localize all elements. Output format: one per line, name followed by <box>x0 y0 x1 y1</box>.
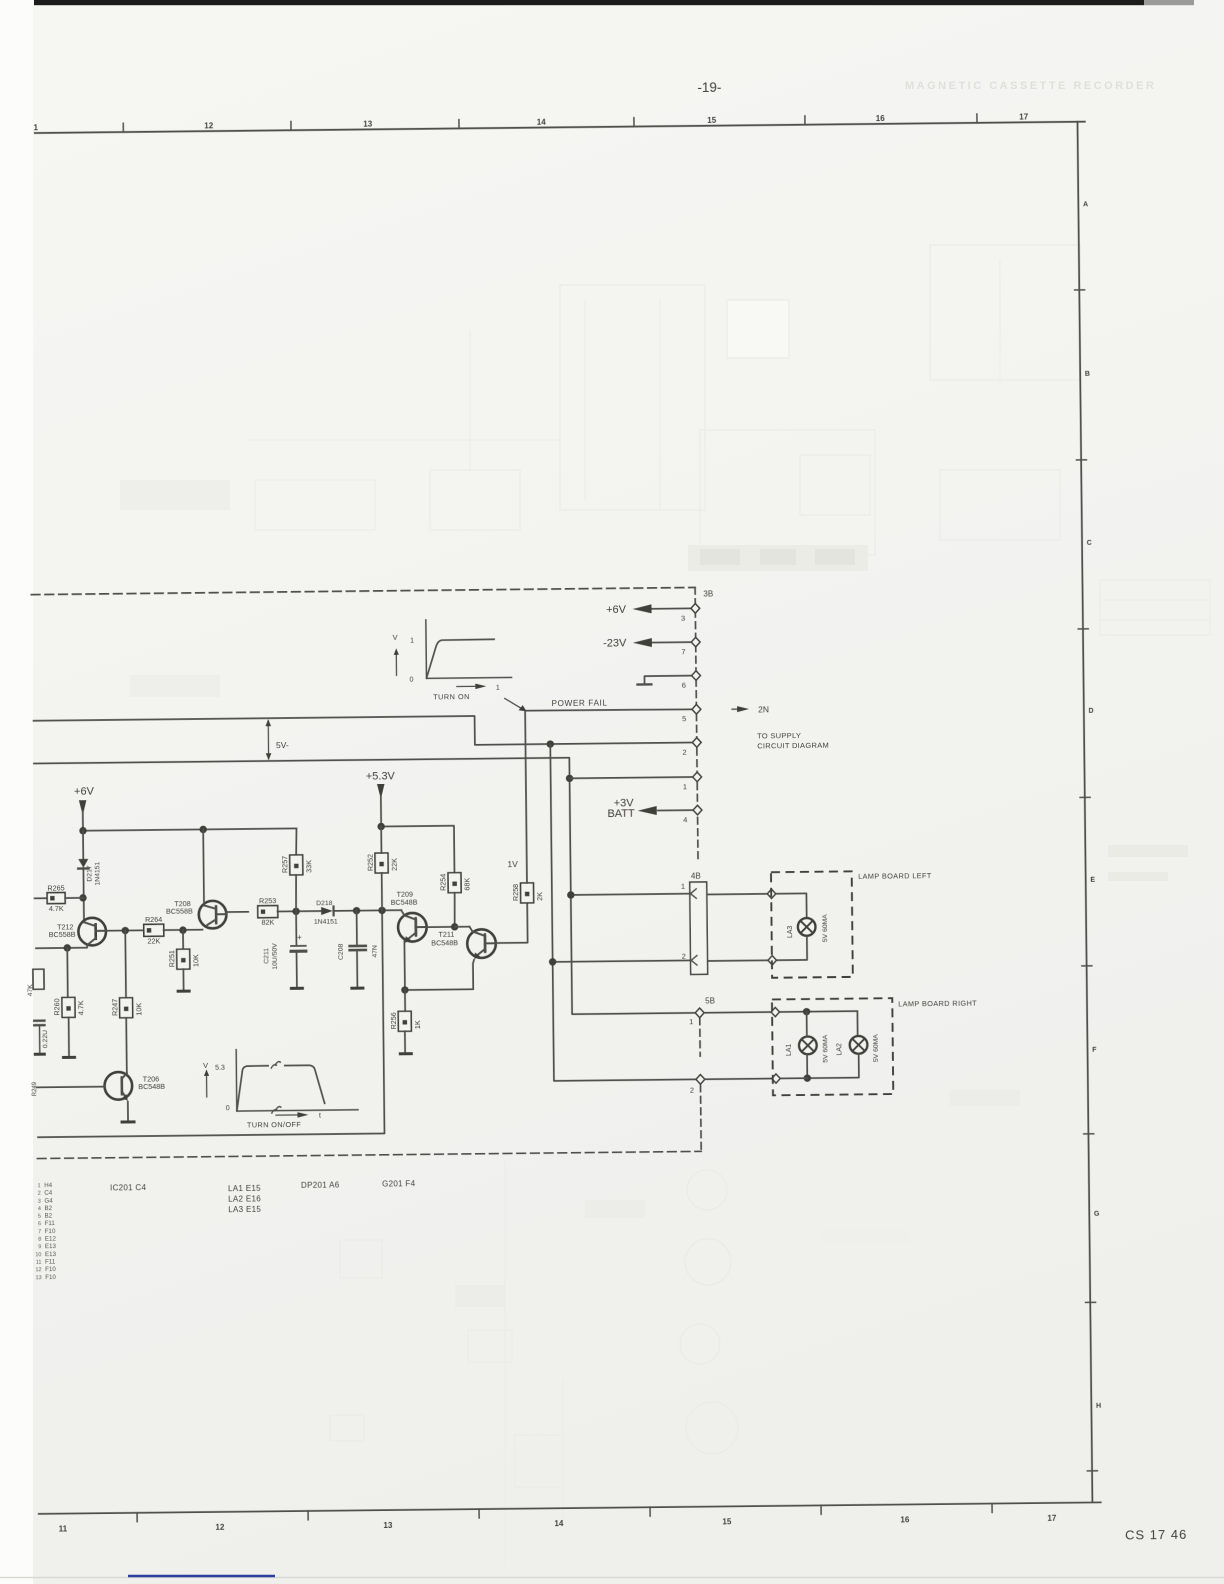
svg-text:E: E <box>1090 877 1095 884</box>
svg-text:LA1 E15: LA1 E15 <box>228 1184 261 1193</box>
wire +6V rail <box>83 828 296 830</box>
location note LA3 E15 <box>228 1205 261 1214</box>
svg-text:4.7K: 4.7K <box>49 904 64 913</box>
svg-text:7: 7 <box>38 1229 41 1235</box>
svg-text:LAMP BOARD RIGHT: LAMP BOARD RIGHT <box>898 999 977 1009</box>
svg-text:C208: C208 <box>338 943 345 960</box>
svg-text:2N: 2N <box>758 704 769 714</box>
label T212 BC558B <box>49 922 76 939</box>
wire R265 stub from page edge <box>35 897 48 899</box>
node R257/C211 junction <box>292 908 299 915</box>
svg-text:F10: F10 <box>45 1266 56 1273</box>
node emitter-rail / R260 <box>64 944 71 951</box>
svg-text:R265: R265 <box>47 883 64 892</box>
svg-text:9: 9 <box>38 1244 41 1250</box>
ground below T206 <box>121 1120 136 1123</box>
svg-text:BC558B: BC558B <box>49 930 76 939</box>
wire: 5V- upper rail to connector 3B pin 2 <box>33 714 693 750</box>
svg-text:B2: B2 <box>44 1205 52 1212</box>
ground below R251 <box>177 990 191 993</box>
svg-text:CS 17 46: CS 17 46 <box>1125 1527 1187 1543</box>
svg-text:13: 13 <box>363 120 373 129</box>
wire R265 to base node <box>65 897 83 899</box>
wire T208 collector to +6V rail <box>202 829 205 902</box>
svg-text:POWER FAIL: POWER FAIL <box>551 699 607 709</box>
wire down to R251 <box>182 930 184 949</box>
transistor T211 BC548B <box>467 926 496 959</box>
graph turn-on/off: value 5.3 and 0 <box>215 1065 230 1112</box>
svg-text:LAMP BOARD LEFT: LAMP BOARD LEFT <box>858 871 932 881</box>
svg-text:10: 10 <box>35 1252 41 1258</box>
svg-text:2: 2 <box>690 1085 694 1094</box>
svg-text:4: 4 <box>683 815 687 824</box>
svg-text:15: 15 <box>722 1517 732 1526</box>
connector 4B housing <box>690 882 708 975</box>
dashed box LAMP BOARD RIGHT <box>772 998 893 1095</box>
graph turn-on/off: V label and arrow <box>203 1061 209 1097</box>
svg-text:14: 14 <box>554 1519 564 1528</box>
wire R252 column <box>380 826 383 910</box>
lamp board left boundary diamond pin1 <box>767 889 775 898</box>
svg-text:MAGNETIC CASSETTE RECORDER: MAGNETIC CASSETTE RECORDER <box>905 80 1156 92</box>
svg-text:BC548B: BC548B <box>391 898 418 907</box>
svg-text:R251: R251 <box>167 950 176 967</box>
svg-text:2K: 2K <box>535 892 544 901</box>
connector 3B dashed spine <box>695 587 698 861</box>
graph turn-on: time axis arrow and t <box>457 683 500 692</box>
svg-text:1: 1 <box>683 782 687 791</box>
location note LA2 E16 <box>228 1194 261 1203</box>
diode D217 1N4151 <box>78 859 101 886</box>
svg-text:G201 F4: G201 F4 <box>382 1179 416 1188</box>
transistor T209 BC548B <box>398 910 427 943</box>
svg-text:6: 6 <box>38 1221 41 1227</box>
dashed box LAMP BOARD LEFT <box>771 871 853 977</box>
wire D218 to T209 base node <box>334 909 402 912</box>
svg-text:E13: E13 <box>45 1251 57 1258</box>
svg-text:R260: R260 <box>52 998 61 1015</box>
wire T206 base from page edge <box>37 1086 105 1089</box>
resistor R265 4.7K <box>47 883 65 913</box>
svg-text:5: 5 <box>682 714 686 723</box>
svg-text:BC548B: BC548B <box>431 938 458 947</box>
connector 3B pin 7 (-23V) <box>633 637 700 657</box>
resistor R260 4.7K <box>52 997 85 1017</box>
wire R260 to ground <box>68 1017 70 1057</box>
svg-text:BC558B: BC558B <box>166 907 193 916</box>
graph turn-on/off: time axis arrow and t <box>276 1112 321 1120</box>
svg-text:R256: R256 <box>389 1012 398 1029</box>
svg-text:1: 1 <box>689 1017 693 1026</box>
svg-text:-23V: -23V <box>603 637 627 649</box>
graph turn-on/off: caption TURN ON/OFF <box>247 1120 301 1130</box>
svg-text:11: 11 <box>36 1260 42 1266</box>
svg-text:+: + <box>297 933 302 942</box>
wire T211 emitter to node <box>405 959 475 990</box>
svg-text:R247: R247 <box>110 999 119 1016</box>
graph turn-on: V axis label and arrow <box>392 633 399 676</box>
location note IC201 C4 <box>110 1183 147 1192</box>
wire T212 emitter to left rail <box>35 945 87 948</box>
svg-text:10U/50V: 10U/50V <box>272 943 279 970</box>
svg-text:F11: F11 <box>45 1259 56 1266</box>
svg-text:7: 7 <box>681 647 685 656</box>
diode D218 1N4151 <box>314 900 338 926</box>
svg-text:22K: 22K <box>390 858 399 871</box>
resistor R254 68K <box>438 873 471 893</box>
bottom ruler ticks <box>137 1504 992 1522</box>
svg-text:D: D <box>1089 708 1094 715</box>
label LAMP BOARD RIGHT <box>898 999 977 1009</box>
svg-text:1: 1 <box>38 1183 41 1189</box>
grid reference list rotated at left margin <box>35 1182 57 1281</box>
connector 3B pin 1 diamond <box>683 772 702 791</box>
svg-text:1N4151: 1N4151 <box>94 862 101 886</box>
svg-text:IC201 C4: IC201 C4 <box>110 1183 147 1192</box>
svg-text:1K: 1K <box>413 1020 422 1029</box>
svg-text:47N: 47N <box>372 945 379 958</box>
label T211 BC548B <box>431 930 458 948</box>
svg-text:1N4151: 1N4151 <box>314 918 338 925</box>
wire 5B pin2 wire into lamp board <box>705 1078 807 1079</box>
location note LA1 E15 <box>228 1184 261 1193</box>
svg-text:DP201 A6: DP201 A6 <box>301 1180 340 1189</box>
graph turn-on: axis values 1 and 0 <box>409 638 414 684</box>
svg-text:68K: 68K <box>463 878 472 891</box>
resistor R257 33K <box>280 855 313 875</box>
top ruler ticks <box>123 114 977 132</box>
wire R257 column from rail <box>295 828 298 854</box>
lamp LA1 5V 60MA <box>785 1034 829 1063</box>
svg-text:C4: C4 <box>44 1190 53 1197</box>
ground below C211 <box>290 987 304 990</box>
wire column A to 4B pin 2 <box>553 960 691 961</box>
location note G201 F4 <box>382 1179 416 1188</box>
sheet code CS 17 46 <box>1125 1527 1187 1543</box>
svg-text:G4: G4 <box>44 1197 53 1204</box>
label 1V test point <box>507 859 518 869</box>
node: column B junction to 3B pin1 wire <box>566 775 573 782</box>
svg-text:0: 0 <box>226 1105 230 1112</box>
wire LA2 bottom to LA1 bottom <box>807 1054 859 1079</box>
svg-text:D217: D217 <box>86 865 93 882</box>
connector 3B label <box>703 589 713 598</box>
resistor R264 22K <box>144 915 164 946</box>
ground below C208 <box>350 987 364 990</box>
connector 4B pin 1 chevron <box>681 882 697 899</box>
node +5.3V rail / R252 <box>377 823 384 830</box>
svg-text:5V 60MA: 5V 60MA <box>822 914 829 942</box>
svg-text:0.22U: 0.22U <box>42 1030 49 1048</box>
svg-text:-19-: -19- <box>697 80 721 95</box>
wire node down to C211 <box>295 911 297 945</box>
svg-text:C211: C211 <box>263 948 270 964</box>
svg-text:V: V <box>203 1061 208 1070</box>
svg-text:5V 60MA: 5V 60MA <box>822 1034 829 1062</box>
svg-text:LA2: LA2 <box>836 1043 843 1056</box>
svg-text:1: 1 <box>34 123 39 132</box>
wire T211 collector to R258 column <box>495 903 528 943</box>
svg-text:1V: 1V <box>507 859 518 869</box>
ground at page edge <box>34 1053 46 1056</box>
wire R257 to node <box>295 875 298 911</box>
dashed boundary box of supply circuit (top edge) <box>31 587 695 594</box>
graph turn-on: response curve <box>426 639 495 678</box>
svg-text:A: A <box>1083 201 1088 208</box>
node LA1 bottom <box>804 1074 811 1081</box>
svg-text:+5.3V: +5.3V <box>366 770 396 782</box>
right border row letters A-H <box>1083 201 1102 1409</box>
node C208 tap <box>353 907 360 914</box>
dashed boundary box (bottom edge) <box>37 1151 701 1158</box>
node LA1 top <box>803 1008 810 1015</box>
wire C208 column <box>356 911 358 945</box>
wire T209 emitter down <box>403 941 406 990</box>
wire C211 to ground <box>296 951 298 988</box>
label T206 BC548B <box>138 1075 165 1092</box>
svg-text:t: t <box>319 1113 321 1120</box>
power arrow +5.3V <box>366 770 396 826</box>
wire T208 emitter to R253 <box>226 911 248 913</box>
lamp LA2 5V 60MA <box>836 1034 880 1063</box>
connector 4B label <box>691 872 701 881</box>
svg-text:3: 3 <box>681 613 685 622</box>
svg-text:F10: F10 <box>45 1228 56 1235</box>
resistor R251 10K <box>167 949 200 969</box>
connector 3B pin 4 (+3V BATT) <box>638 805 702 824</box>
svg-text:12: 12 <box>35 1267 41 1273</box>
label T209 BC548B <box>391 890 418 907</box>
wire diode to base node <box>82 868 85 922</box>
top ruler column numbers <box>34 112 1029 132</box>
note TO SUPPLY CIRCUIT DIAGRAM <box>757 731 829 750</box>
svg-text:B2: B2 <box>45 1213 53 1220</box>
wire: column A down to 5B pin 2 <box>550 743 696 1081</box>
wire C208 to ground <box>356 950 358 988</box>
node R247 tap <box>122 927 129 934</box>
wire column B to 4B pin 1 <box>571 894 690 895</box>
svg-text:1: 1 <box>496 685 500 692</box>
node column A / 4B pin2 <box>549 958 556 965</box>
connector 4B pin 2 chevron <box>682 952 698 966</box>
svg-text:6: 6 <box>682 681 686 690</box>
wire down to R260 <box>66 948 69 998</box>
svg-text:22K: 22K <box>147 936 160 945</box>
svg-text:R258: R258 <box>511 884 520 901</box>
net label +6V at pin 3 <box>606 604 627 616</box>
svg-text:13: 13 <box>36 1275 42 1281</box>
wire +5.3V rail to R254 column <box>381 826 454 875</box>
svg-text:LA2 E16: LA2 E16 <box>228 1194 261 1203</box>
lamp board right boundary diamond pin2 <box>772 1074 780 1083</box>
svg-text:TO SUPPLY: TO SUPPLY <box>757 731 801 740</box>
svg-text:11: 11 <box>59 1524 68 1533</box>
label T208 BC558B <box>166 899 193 916</box>
node T209/T211/R254 <box>451 923 458 930</box>
node D217/R265 junction <box>79 894 86 901</box>
graph turn-on/off: response curve with breaks <box>236 1061 325 1114</box>
svg-text:4.7K: 4.7K <box>76 1000 85 1015</box>
wire LA3 to 4B pin2 <box>707 936 807 961</box>
svg-text:1: 1 <box>410 638 414 645</box>
svg-text:16: 16 <box>876 114 886 123</box>
svg-text:3B: 3B <box>703 589 713 598</box>
wire to LA2 top <box>856 1011 858 1036</box>
node column B / 4B pin1 <box>567 891 574 898</box>
label 5V- with span arrows <box>265 719 289 760</box>
power arrow +6V <box>74 786 95 831</box>
svg-text:5V 60MA: 5V 60MA <box>873 1034 880 1062</box>
wire R254 to T209 collector node <box>453 893 456 927</box>
wire R247 column <box>124 931 127 999</box>
svg-text:10K: 10K <box>191 954 200 967</box>
wire: 3B pin 1 wire <box>570 777 693 778</box>
resistor 47K at page edge (cut) <box>27 969 44 996</box>
connector 5B label <box>705 996 715 1005</box>
wire R253 to node <box>277 910 321 912</box>
graph turn-on/off: axes <box>236 1048 358 1111</box>
svg-text:LA3 E15: LA3 E15 <box>228 1205 261 1214</box>
svg-text:TURN ON/OFF: TURN ON/OFF <box>247 1120 301 1130</box>
transistor T212 BC558B <box>78 918 106 946</box>
wire R247 to T206 collector <box>125 1018 128 1073</box>
svg-text:13: 13 <box>383 1521 393 1530</box>
capacitor C208 47N <box>338 943 379 960</box>
svg-text:CIRCUIT DIAGRAM: CIRCUIT DIAGRAM <box>757 740 829 750</box>
wire: lower rail to column B <box>33 756 695 1020</box>
svg-text:16: 16 <box>900 1515 910 1524</box>
svg-text:1: 1 <box>681 882 685 891</box>
wire R251 to ground <box>182 969 184 991</box>
label LAMP BOARD LEFT <box>858 871 932 881</box>
svg-text:H: H <box>1096 1403 1101 1410</box>
wire down to R256 <box>404 990 406 1011</box>
svg-text:2: 2 <box>682 952 686 961</box>
connector 5B pin 2 diamond <box>690 1075 705 1095</box>
svg-text:2: 2 <box>682 748 686 757</box>
svg-text:10K: 10K <box>134 1003 143 1016</box>
transistor T206 BC548B <box>104 1072 132 1101</box>
node emitters/R256 <box>401 986 408 993</box>
wire R256 to ground <box>404 1031 406 1053</box>
svg-text:3: 3 <box>38 1199 41 1205</box>
svg-text:R264: R264 <box>145 915 162 924</box>
transistor T208 BC558B <box>199 901 227 929</box>
svg-text:BC548B: BC548B <box>138 1082 165 1091</box>
svg-text:R249: R249 <box>32 1081 38 1096</box>
connector 5B pin 1 diamond <box>689 1008 704 1026</box>
connector 5B dashed spine segments <box>700 1018 701 1151</box>
resistor R256 1K <box>389 1011 422 1031</box>
node rail/T208 collector <box>199 826 206 833</box>
bottom ruler line <box>39 1502 1101 1513</box>
wire 4B pin1 to lamp LA3 <box>707 893 807 919</box>
svg-text:B: B <box>1085 371 1090 378</box>
node rail/+6V column <box>79 827 86 834</box>
ground below R256 <box>399 1052 413 1055</box>
wire 5B pin1 into lamp board right <box>704 1011 857 1013</box>
wire R264 to T208 base <box>164 929 203 931</box>
svg-text:5: 5 <box>38 1214 41 1220</box>
wire T206 emitter to ground <box>127 1101 129 1122</box>
connector 3B pin 3 (+6V) <box>632 604 699 624</box>
lamp board right boundary diamond pin1 <box>771 1007 779 1016</box>
svg-text:V: V <box>392 633 397 642</box>
svg-text:D218: D218 <box>316 900 333 907</box>
svg-text:BATT: BATT <box>607 808 635 820</box>
wire POWER FAIL to 3B pin 5 <box>526 704 701 725</box>
wire bottom rail <box>35 910 385 1137</box>
resistor R258 2K <box>511 883 544 903</box>
net label +3V BATT <box>607 797 635 820</box>
svg-text:H4: H4 <box>44 1182 53 1189</box>
label stub R2x at page edge <box>32 1081 38 1096</box>
svg-text:TURN ON: TURN ON <box>433 692 470 701</box>
resistor R252 22K <box>365 853 398 873</box>
capacitor C211 10U/50V electrolytic <box>263 933 306 970</box>
svg-text:F10: F10 <box>45 1274 56 1281</box>
svg-text:R252: R252 <box>365 854 374 871</box>
location note DP201 A6 <box>301 1180 340 1189</box>
svg-text:LA1: LA1 <box>786 1043 793 1056</box>
svg-text:17: 17 <box>1047 1514 1057 1523</box>
svg-text:8: 8 <box>38 1237 41 1243</box>
svg-text:12: 12 <box>204 121 214 130</box>
svg-text:+6V: +6V <box>74 786 95 798</box>
pointer arrow from TURN ON graph to POWER FAIL corner <box>505 698 527 711</box>
svg-text:2: 2 <box>38 1191 41 1197</box>
node R252 tap / down-wire <box>378 907 385 914</box>
svg-text:F11: F11 <box>45 1220 56 1227</box>
net stub 2N <box>732 704 769 714</box>
svg-text:12: 12 <box>215 1523 225 1532</box>
svg-text:33K: 33K <box>304 860 313 873</box>
resistor R247 10K <box>110 998 143 1018</box>
svg-text:G: G <box>1094 1211 1100 1218</box>
svg-text:0: 0 <box>410 677 414 684</box>
svg-text:R257: R257 <box>280 856 289 873</box>
svg-text:LA3: LA3 <box>787 925 794 938</box>
wire T209 collector to node <box>426 926 454 928</box>
svg-text:47K: 47K <box>27 984 34 997</box>
svg-text:R253: R253 <box>259 896 276 905</box>
graph turn-on: axes <box>426 619 512 678</box>
connector 3B pin 6 with open stub <box>637 671 700 690</box>
svg-text:5.3: 5.3 <box>215 1065 225 1072</box>
net label POWER FAIL <box>551 699 607 709</box>
svg-text:E12: E12 <box>45 1236 57 1243</box>
svg-text:4: 4 <box>38 1206 41 1212</box>
net label -23V at pin 7 <box>603 637 627 649</box>
right border line <box>1077 122 1092 1503</box>
wire node to T211 base <box>455 926 470 928</box>
svg-text:4B: 4B <box>691 872 701 881</box>
svg-text:+6V: +6V <box>606 604 627 616</box>
svg-text:14: 14 <box>537 118 547 127</box>
lamp board left boundary diamond pin2 <box>768 956 776 965</box>
wire LA1 column <box>806 1012 809 1078</box>
wire +6V column down to diode <box>82 831 84 859</box>
bottom ruler column numbers <box>59 1514 1057 1534</box>
capacitor 0.22U at page edge (cut) <box>34 1021 49 1055</box>
svg-text:R254: R254 <box>438 874 447 891</box>
right border row ticks <box>1075 290 1098 1471</box>
wire R258 up to POWER FAIL <box>525 711 527 883</box>
node R251 tap <box>179 926 186 933</box>
svg-text:15: 15 <box>707 116 717 125</box>
svg-text:5V-: 5V- <box>276 740 289 750</box>
connector 3B pin 2 diamond <box>682 738 701 757</box>
